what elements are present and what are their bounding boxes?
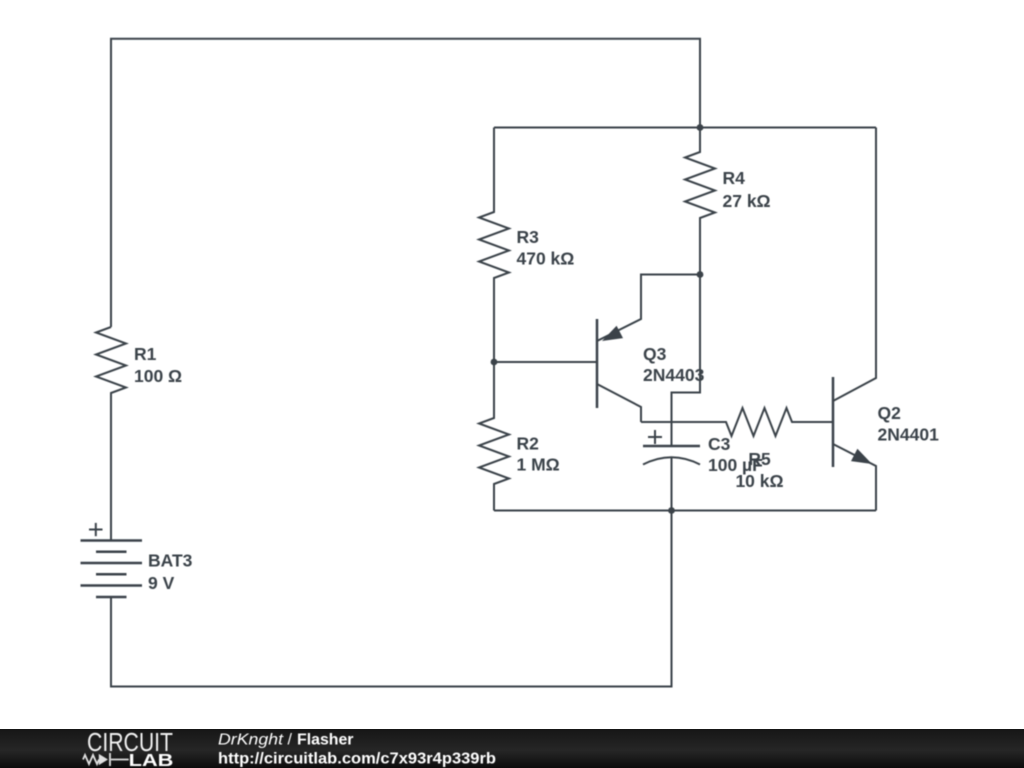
svg-text:R2: R2 <box>517 433 540 453</box>
svg-text:1 MΩ: 1 MΩ <box>517 454 560 474</box>
svg-text:100 µF: 100 µF <box>708 455 763 475</box>
svg-text:/: / <box>288 732 293 749</box>
svg-text:R3: R3 <box>517 227 540 247</box>
svg-text:LAB: LAB <box>129 750 174 768</box>
svg-text:DrKnght: DrKnght <box>218 732 284 749</box>
svg-text:R1: R1 <box>134 344 157 364</box>
svg-text:2N4401: 2N4401 <box>878 424 940 444</box>
svg-text:R4: R4 <box>723 168 746 188</box>
svg-text:27 kΩ: 27 kΩ <box>723 191 771 211</box>
svg-text:Q3: Q3 <box>643 344 667 364</box>
svg-text:BAT3: BAT3 <box>148 551 193 571</box>
svg-text:2N4403: 2N4403 <box>643 365 705 385</box>
svg-text:9 V: 9 V <box>148 573 175 593</box>
svg-text:Flasher: Flasher <box>297 732 354 749</box>
svg-text:http://circuitlab.com/c7x93r4p: http://circuitlab.com/c7x93r4p339rb <box>218 751 496 768</box>
svg-text:470 kΩ: 470 kΩ <box>517 249 575 269</box>
svg-text:100 Ω: 100 Ω <box>134 366 182 386</box>
svg-text:C3: C3 <box>708 434 731 454</box>
svg-text:Q2: Q2 <box>878 403 902 423</box>
